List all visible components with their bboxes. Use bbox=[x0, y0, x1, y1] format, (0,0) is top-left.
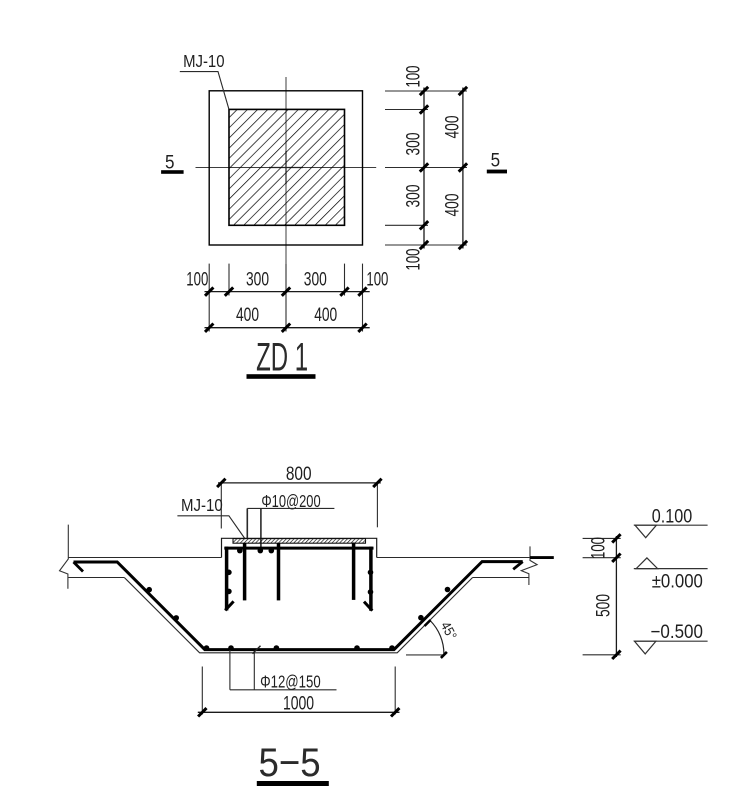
dim 1000 line bbox=[198, 711, 400, 713]
rebar mesh thick line bbox=[74, 562, 523, 650]
svg-text:ZD 1: ZD 1 bbox=[256, 335, 308, 379]
svg-text:1000: 1000 bbox=[283, 693, 314, 715]
rebar dots bottom bbox=[204, 645, 395, 651]
excavation thin outline bbox=[124, 578, 472, 653]
break line right bbox=[521, 546, 537, 585]
anchor wall bar left bbox=[225, 547, 229, 611]
section marker 5 left bar bbox=[161, 170, 184, 174]
svg-text:400: 400 bbox=[314, 304, 337, 326]
slab bottom line right bbox=[473, 577, 529, 579]
leader phi10at200 vertical 2 bbox=[260, 508, 262, 549]
svg-text:100: 100 bbox=[403, 65, 425, 87]
anchor section dots under plate bbox=[237, 548, 274, 554]
svg-text:MJ-10: MJ-10 bbox=[183, 51, 224, 71]
title 5-5 underline bbox=[257, 781, 329, 786]
leader slash on bar bbox=[253, 646, 261, 654]
svg-text:100: 100 bbox=[588, 537, 610, 559]
dim 800 extension lines bbox=[221, 483, 377, 529]
level mark 0.000 line bbox=[634, 568, 708, 570]
wall face dots bbox=[226, 570, 373, 595]
svg-text:400: 400 bbox=[442, 193, 464, 216]
svg-text:300: 300 bbox=[304, 268, 327, 290]
leader MJ-10 section bbox=[177, 516, 244, 539]
leader phi12at150 vertical 1 bbox=[229, 650, 231, 690]
anchor bar interior 2 bbox=[277, 543, 281, 600]
svg-text:5: 5 bbox=[165, 151, 175, 173]
svg-text:±0.000: ±0.000 bbox=[652, 570, 703, 592]
angle arc bbox=[430, 621, 444, 655]
ticks right chain2 bbox=[459, 87, 467, 249]
plan pad hatched square bbox=[229, 109, 345, 225]
ticks dim 800 bbox=[217, 479, 381, 487]
slab bottom line left bbox=[68, 577, 124, 579]
anchor wall right hook bbox=[364, 602, 372, 611]
ticks bottom chain2 bbox=[205, 324, 367, 332]
ticks bottom chain1 bbox=[205, 287, 367, 295]
right dim chain2 line bbox=[462, 88, 464, 249]
svg-text:500: 500 bbox=[593, 594, 615, 617]
elevation dim line bbox=[615, 536, 617, 657]
svg-text:100: 100 bbox=[366, 268, 388, 290]
svg-text:−0.500: −0.500 bbox=[651, 621, 704, 643]
svg-text:100: 100 bbox=[403, 248, 425, 270]
bottom dim chain1 line bbox=[205, 291, 370, 293]
angle arc tick top bbox=[425, 620, 431, 626]
ticks right chain1 bbox=[420, 87, 428, 249]
svg-text:5−5: 5−5 bbox=[259, 741, 321, 785]
level mark -0.500 line bbox=[634, 640, 708, 642]
rebar hook right end bbox=[513, 562, 523, 570]
bottom dim chain2 line bbox=[205, 327, 370, 329]
rebar dots left slope bbox=[146, 587, 179, 621]
level mark 0.100 triangle bbox=[635, 525, 656, 538]
pocket outline bbox=[222, 538, 377, 557]
right dim chain1 line bbox=[423, 88, 425, 249]
dim 1000 extension lines bbox=[202, 667, 395, 715]
svg-text:5: 5 bbox=[491, 150, 501, 172]
leader MJ-10 plan bbox=[180, 72, 229, 110]
embedded plate hatched strip bbox=[233, 539, 366, 544]
svg-text:300: 300 bbox=[403, 132, 425, 155]
title ZD1 underline bbox=[247, 374, 316, 379]
anchor plate thick line bbox=[224, 547, 373, 550]
plan outer square bbox=[209, 91, 362, 245]
centerline vertical plan bbox=[285, 77, 287, 264]
rebar dots right slope bbox=[418, 587, 450, 621]
svg-text:100: 100 bbox=[186, 268, 208, 290]
svg-text:0.100: 0.100 bbox=[652, 505, 693, 527]
center mark cross bbox=[269, 151, 303, 184]
leader phi10at200 underline bbox=[247, 507, 334, 509]
right dim extension lines bbox=[385, 91, 467, 245]
ground line left bbox=[68, 557, 221, 559]
anchor bar interior 1 bbox=[243, 543, 247, 600]
anchor wall left hook bbox=[225, 601, 233, 610]
svg-text:400: 400 bbox=[236, 304, 259, 326]
svg-text:300: 300 bbox=[246, 268, 269, 290]
svg-text:Φ12@150: Φ12@150 bbox=[260, 672, 321, 692]
leader phi10at200 vertical 1 bbox=[246, 508, 248, 538]
centerline horizontal plan bbox=[196, 167, 377, 169]
svg-text:MJ-10: MJ-10 bbox=[181, 495, 223, 515]
svg-text:300: 300 bbox=[403, 184, 425, 207]
rebar hook left end bbox=[74, 562, 84, 572]
angle baseline bbox=[406, 654, 445, 656]
ticks elevation dims bbox=[612, 534, 620, 659]
level mark 0.000 triangle bbox=[636, 558, 657, 569]
elevation extension lines bbox=[583, 538, 621, 654]
bottom dim extension lines bbox=[209, 264, 362, 332]
leader phi12at150 vertical 2 bbox=[253, 651, 255, 690]
anchor bar interior 3 bbox=[352, 543, 356, 600]
level mark 0.100 line bbox=[634, 524, 708, 526]
anchor wall bar right bbox=[369, 547, 373, 611]
svg-text:400: 400 bbox=[442, 115, 464, 138]
ground thick stub right bbox=[530, 556, 554, 559]
section marker 5 right bar bbox=[487, 170, 507, 174]
angle arc tick bottom bbox=[441, 652, 447, 658]
ground line right bbox=[377, 557, 530, 559]
ticks dim 1000 bbox=[198, 708, 399, 716]
level mark -0.500 triangle bbox=[635, 641, 656, 654]
break line left bbox=[60, 525, 69, 589]
svg-text:800: 800 bbox=[286, 463, 312, 485]
dim 800 line bbox=[218, 482, 381, 484]
leader phi12at150 underline bbox=[230, 689, 337, 691]
